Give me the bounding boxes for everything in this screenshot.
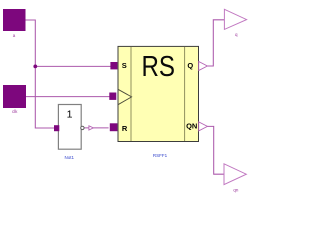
svg-text:QN: QN xyxy=(186,122,197,131)
svg-text:S: S xyxy=(122,61,127,70)
svg-text:Not1: Not1 xyxy=(65,155,75,160)
svg-text:a: a xyxy=(13,33,16,38)
svg-text:qn: qn xyxy=(233,187,239,192)
svg-text:RS: RS xyxy=(141,51,175,83)
svg-text:Q: Q xyxy=(187,61,193,70)
svg-text:1: 1 xyxy=(67,109,73,121)
svg-text:RSFF1: RSFF1 xyxy=(153,153,168,158)
svg-text:q: q xyxy=(235,32,238,37)
svg-text:clk: clk xyxy=(12,109,18,114)
svg-text:R: R xyxy=(122,124,128,133)
